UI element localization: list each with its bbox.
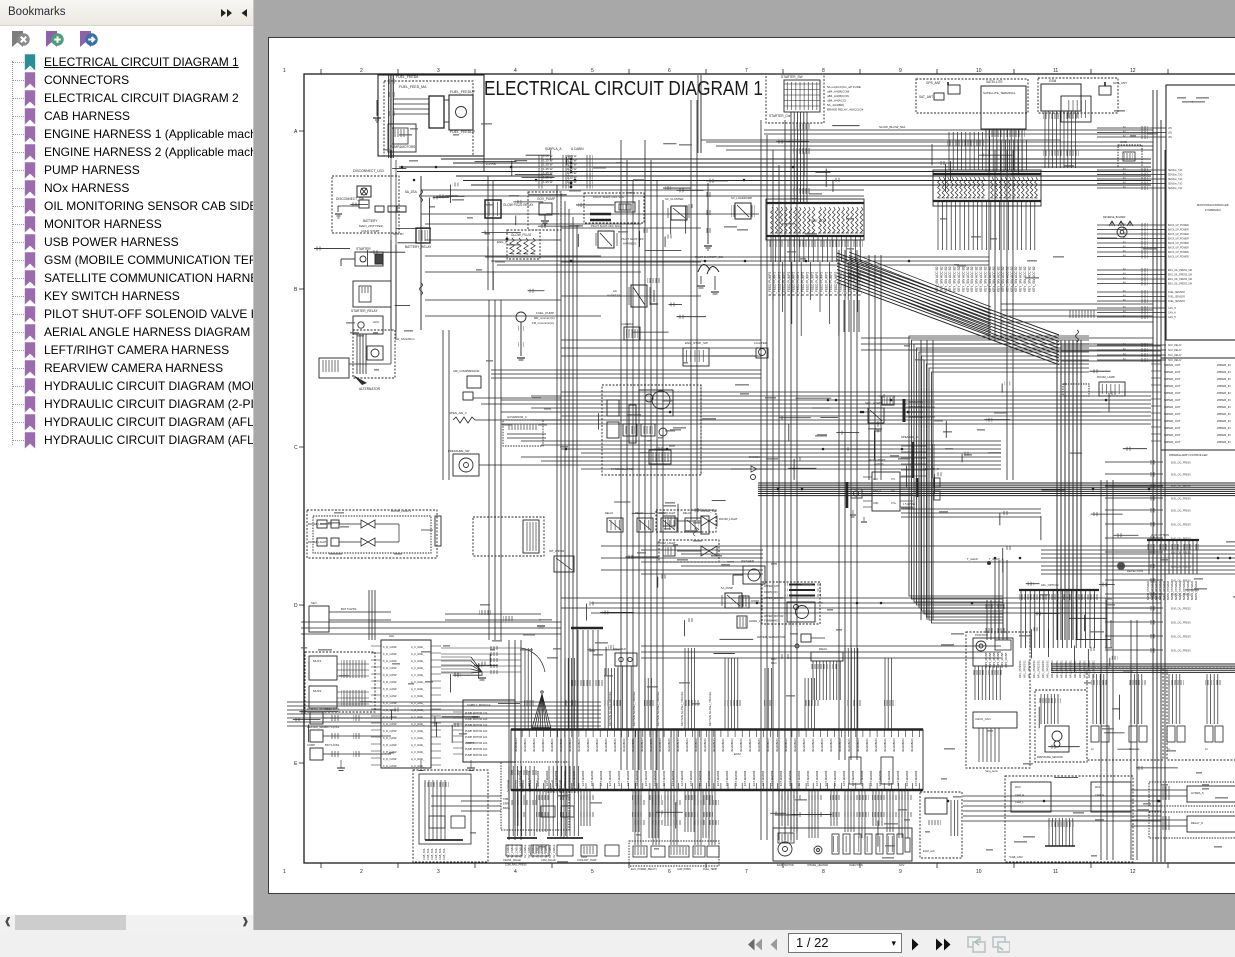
- svg-text:PUMP MOTOR 12A: PUMP MOTOR 12A: [465, 736, 488, 739]
- svg-text:ENG_OIL_PRESS: ENG_OIL_PRESS: [1171, 538, 1191, 541]
- svg-text:FUEL_SENSOR: FUEL_SENSOR: [1168, 301, 1185, 303]
- svg-text:PUMP MOTOR 12A: PUMP MOTOR 12A: [465, 754, 488, 757]
- svg-text:WIPER&LAMP CONTROLLER: WIPER&LAMP CONTROLLER: [1169, 453, 1208, 457]
- svg-text:WIPER_IN: WIPER_IN: [1217, 363, 1231, 367]
- svg-text:BRAKE RELAY_4(ACC)C#: BRAKE RELAY_4(ACC)C#: [827, 108, 863, 112]
- svg-text:EXT-MHBD4: EXT-MHBD4: [608, 770, 612, 786]
- svg-text:BATTERY_RELAY: BATTERY_RELAY: [405, 245, 432, 249]
- svg-text:PILOT SHUT-OFF SOL#: PILOT SHUT-OFF SOL#: [591, 224, 622, 228]
- svg-text:KEY_SW ACC B2: KEY_SW ACC B2: [944, 266, 948, 292]
- svg-text:4: 4: [514, 68, 517, 74]
- svg-text:K_D_CAN#: K_D_CAN#: [383, 645, 397, 649]
- svg-text:ENG_STOP_SW: ENG_STOP_SW: [685, 341, 708, 345]
- svg-text:EXT-MHBD4: EXT-MHBD4: [725, 770, 729, 786]
- svg-text:EXT-MHBD4: EXT-MHBD4: [860, 770, 864, 786]
- svg-text:CH+: CH+: [891, 502, 896, 505]
- svg-text:uB4_A4(ACC): uB4_A4(ACC): [827, 99, 846, 103]
- svg-text:PUMP MOTOR 12A: PUMP MOTOR 12A: [465, 712, 488, 715]
- svg-text:EGR_MOTOR: EGR_MOTOR: [777, 863, 794, 867]
- svg-text:CAN_H: CAN_H: [1168, 312, 1176, 315]
- svg-text:IN-MHBCD: IN-MHBCD: [604, 739, 608, 752]
- svg-text:SOC_RELAY: SOC_RELAY: [1168, 359, 1182, 362]
- svg-text:CAM_ANGLE: CAM_ANGLE: [541, 859, 556, 862]
- svg-text:SUPPLY_MODULE: SUPPLY_MODULE: [467, 703, 491, 707]
- svg-text:IN-MHBCD: IN-MHBCD: [874, 739, 878, 752]
- svg-text:RC1: RC1: [1095, 785, 1101, 789]
- svg-text:AFL_PRESS1: AFL_PRESS1: [1027, 660, 1031, 678]
- svg-text:K_D_CAN#: K_D_CAN#: [383, 722, 397, 726]
- svg-text:ROOM_LIGHT: ROOM_LIGHT: [657, 541, 676, 545]
- svg-text:HARNESS: HARNESS: [607, 294, 621, 298]
- svg-text:IN-MHBCD: IN-MHBCD: [856, 739, 860, 752]
- svg-text:10: 10: [976, 68, 982, 74]
- svg-text:PRESSURE_SW: PRESSURE_SW: [448, 449, 470, 453]
- svg-text:WIPER_OUT: WIPER_OUT: [1164, 391, 1181, 395]
- svg-text:1: 1: [283, 869, 286, 875]
- svg-text:WAHARU6: WAHARU6: [613, 647, 626, 651]
- svg-text:KEYSIG GLP&J_TRAVEL: KEYSIG GLP&J_TRAVEL: [680, 691, 684, 726]
- svg-text:FYNBMN4KC: FYNBMN4KC: [1205, 208, 1221, 212]
- svg-text:EXT-MHBD4: EXT-MHBD4: [779, 770, 783, 786]
- svg-text:12: 12: [1130, 869, 1136, 875]
- svg-text:KEY_SW ACC B2: KEY_SW ACC B2: [970, 266, 974, 292]
- svg-text:IN-MHBCD: IN-MHBCD: [757, 739, 761, 752]
- svg-text:5A_2EA: 5A_2EA: [405, 190, 418, 194]
- svg-text:EXT-MHBD4: EXT-MHBD4: [761, 770, 765, 786]
- svg-text:B_FEED PUMP2: B_FEED PUMP2: [820, 272, 824, 296]
- svg-text:SV_CABLE: SV_CABLE: [552, 844, 556, 858]
- svg-text:BAT 5 AVSS: BAT 5 AVSS: [341, 607, 357, 611]
- svg-text:A_C_RAE_: A_C_RAE_: [411, 764, 425, 768]
- svg-text:DISCONNECT_LED: DISCONNECT_LED: [353, 169, 384, 173]
- svg-text:IN-MHBCD: IN-MHBCD: [649, 739, 653, 752]
- svg-text:IN-MHBCD: IN-MHBCD: [568, 739, 572, 752]
- svg-text:STARTER: STARTER: [356, 247, 371, 251]
- svg-text:IN-MHBCD: IN-MHBCD: [721, 739, 725, 752]
- svg-text:IN-MHBCD: IN-MHBCD: [766, 739, 770, 752]
- svg-text:SOC_RELAY: SOC_RELAY: [1168, 354, 1182, 357]
- svg-text:SAT_ANT: SAT_ANT: [919, 95, 933, 99]
- svg-text:B: B: [294, 287, 298, 293]
- svg-text:KEY_SW ACC B2: KEY_SW ACC B2: [1001, 266, 1005, 292]
- svg-text:SENSnn_TxD: SENSnn_TxD: [1168, 175, 1183, 177]
- svg-text:ENG_OIL_PRESS: ENG_OIL_PRESS: [1171, 524, 1191, 527]
- svg-text:CAB_SOL: CAB_SOL: [442, 847, 446, 860]
- svg-text:K_D_CAN#: K_D_CAN#: [383, 729, 397, 733]
- svg-text:EXT-MHBD4: EXT-MHBD4: [590, 770, 594, 786]
- svg-text:WIPER_OUT: WIPER_OUT: [1164, 384, 1181, 388]
- svg-text:IN-MHBCD: IN-MHBCD: [892, 739, 896, 752]
- svg-text:D: D: [294, 603, 298, 609]
- svg-text:CAB_SOL: CAB_SOL: [426, 847, 430, 860]
- svg-text:AFL_PRESS1: AFL_PRESS1: [1023, 660, 1027, 678]
- svg-text:BACK_UP_POWER: BACK_UP_POWER: [1168, 229, 1189, 232]
- svg-text:8: 8: [822, 68, 825, 74]
- svg-text:AFL_PRESS1: AFL_PRESS1: [1059, 660, 1063, 678]
- svg-text:SOC_RELAY: SOC_RELAY: [1168, 344, 1182, 347]
- svg-text:ENG_OIL_PRESS: ENG_OIL_PRESS: [1171, 474, 1191, 477]
- svg-text:B_FEED PUMP2: B_FEED PUMP2: [806, 272, 810, 296]
- svg-text:ERR: ERR: [503, 802, 509, 806]
- svg-text:MUTE: MUTE: [1120, 141, 1127, 144]
- svg-text:AC: AC: [613, 289, 617, 293]
- svg-text:S-CN IwR: S-CN IwR: [513, 780, 517, 792]
- svg-text:IN-MHBCD: IN-MHBCD: [595, 739, 599, 752]
- svg-text:MUX2: MUX2: [313, 689, 322, 693]
- svg-text:A_C_RAE_: A_C_RAE_: [411, 757, 425, 761]
- svg-text:IN-MHBCD: IN-MHBCD: [739, 739, 743, 752]
- svg-text:GPS_ANT: GPS_ANT: [926, 81, 941, 85]
- svg-text:BAT 5 AVSS: BAT 5 AVSS: [325, 743, 340, 747]
- svg-text:1.25 W: 1.25 W: [543, 180, 553, 184]
- svg-text:IN-MHBCD: IN-MHBCD: [775, 739, 779, 752]
- svg-text:GOVERNOR_C: GOVERNOR_C: [507, 415, 527, 419]
- svg-text:AFL_PRESS1: AFL_PRESS1: [1032, 660, 1036, 678]
- svg-text:A: A: [294, 129, 298, 135]
- svg-text:ROOM_LIGHT: ROOM_LIGHT: [657, 511, 676, 515]
- svg-text:EXT-MHBD4: EXT-MHBD4: [617, 770, 621, 786]
- svg-text:EXT-MHBD4: EXT-MHBD4: [752, 770, 756, 786]
- svg-text:K_D_CAN#: K_D_CAN#: [383, 673, 397, 677]
- svg-text:A_C_RAE_: A_C_RAE_: [411, 659, 425, 663]
- svg-text:B4nn: B4nn: [771, 662, 777, 665]
- svg-text:EXT-MHBD4: EXT-MHBD4: [599, 770, 603, 786]
- svg-text:9: 9: [899, 869, 902, 875]
- svg-text:IN-MHBCD: IN-MHBCD: [901, 739, 905, 752]
- svg-text:CAB_SOL: CAB_SOL: [430, 847, 434, 860]
- svg-text:IN-MHBCD: IN-MHBCD: [883, 739, 887, 752]
- svg-text:uB4_A4(M)COM: uB4_A4(M)COM: [827, 90, 850, 94]
- svg-text:AFL_PRESS1: AFL_PRESS1: [1092, 660, 1096, 678]
- svg-text:MAIN_2P(TYPE2): MAIN_2P(TYPE2): [359, 224, 383, 228]
- svg-text:AFL_PRESS1: AFL_PRESS1: [1046, 660, 1050, 678]
- svg-text:FUEL_FEEDUP: FUEL_FEEDUP: [450, 90, 476, 94]
- svg-text:5A_4A4(BR): 5A_4A4(BR): [827, 103, 844, 107]
- svg-text:RELAY: RELAY: [605, 511, 614, 515]
- svg-text:DEAC: DEAC: [819, 647, 828, 651]
- svg-text:6: 6: [668, 68, 671, 74]
- svg-text:AFL_PRESS1: AFL_PRESS1: [1036, 660, 1040, 678]
- svg-text:K_D_CAN#: K_D_CAN#: [383, 736, 397, 740]
- svg-text:RELAY: RELAY: [683, 511, 692, 515]
- svg-text:SATELLITE_TERMINAL: SATELLITE_TERMINAL: [983, 91, 1016, 95]
- svg-text:EXT-MHBD4: EXT-MHBD4: [878, 770, 882, 786]
- svg-text:A_C_RAE_: A_C_RAE_: [411, 722, 425, 726]
- svg-text:PUMP MOTOR 12A: PUMP MOTOR 12A: [465, 718, 488, 721]
- svg-text:AIR_COMPRESSOR: AIR_COMPRESSOR: [453, 369, 479, 373]
- svg-text:KEY_SW ACC B2: KEY_SW ACC B2: [1032, 266, 1036, 292]
- svg-text:AFL_PRESS1: AFL_PRESS1: [1064, 660, 1068, 678]
- svg-text:K_D_CAN#: K_D_CAN#: [383, 715, 397, 719]
- svg-text:SV_CLUSTER: SV_CLUSTER: [665, 197, 683, 201]
- svg-text:ENG_OIL_PRESS_SW: ENG_OIL_PRESS_SW: [1168, 284, 1193, 286]
- svg-text:ENG_OIL_PRESS_SW: ENG_OIL_PRESS_SW: [1168, 279, 1193, 281]
- svg-text:B_FEED PUMP2: B_FEED PUMP2: [768, 272, 772, 296]
- svg-text:5A un(ACC)Cs_aP FUSE: 5A un(ACC)Cs_aP FUSE: [827, 85, 861, 89]
- svg-text:IN-MHBCD: IN-MHBCD: [667, 739, 671, 752]
- svg-text:CAM_H: CAM_H: [1015, 793, 1024, 797]
- svg-text:B_FEED PUMP2: B_FEED PUMP2: [792, 272, 796, 296]
- svg-text:OPEN_AIR_C: OPEN_AIR_C: [449, 411, 467, 415]
- svg-text:7: 7: [745, 869, 748, 875]
- svg-text:PRESSURE_SENSOR: PRESSURE_SENSOR: [1037, 756, 1063, 759]
- svg-text:C: C: [294, 445, 298, 451]
- svg-text:SENSnn_TxD: SENSnn_TxD: [1168, 184, 1183, 186]
- svg-text:A_C_RAE_: A_C_RAE_: [411, 666, 425, 670]
- svg-text:EXT-MHBD4: EXT-MHBD4: [842, 770, 846, 786]
- svg-text:u5V: u5V: [1168, 133, 1173, 135]
- svg-text:KEY_SW ACC B2: KEY_SW ACC B2: [988, 266, 992, 292]
- svg-text:BACK_UP_POWER: BACK_UP_POWER: [1168, 238, 1189, 241]
- svg-text:GND: GND: [873, 502, 879, 505]
- svg-text:KEY_SW ACC B2: KEY_SW ACC B2: [979, 266, 983, 292]
- svg-text:FUEL_TEMP: FUEL_TEMP: [703, 868, 717, 871]
- svg-text:EXT-MHBD4: EXT-MHBD4: [887, 770, 891, 786]
- svg-text:PUMP&MOTORS: PUMP&MOTORS: [390, 145, 415, 149]
- svg-text:A&I: A&I: [389, 634, 394, 638]
- svg-text:w_SSnnfDnn: w_SSnnfDnn: [397, 337, 415, 341]
- svg-text:IN-MHBCD: IN-MHBCD: [658, 739, 662, 752]
- svg-text:SOC_RELAY: SOC_RELAY: [1168, 349, 1182, 352]
- svg-text:A_C_RAE_: A_C_RAE_: [411, 715, 425, 719]
- svg-text:WIPER_OUT: WIPER_OUT: [1164, 363, 1181, 367]
- svg-text:COMP: COMP: [307, 743, 315, 747]
- svg-text:ROOM_LAMP: ROOM_LAMP: [1097, 375, 1115, 379]
- svg-text:A_C_RAE_: A_C_RAE_: [411, 687, 425, 691]
- svg-text:IN-MHBCD: IN-MHBCD: [703, 739, 707, 752]
- svg-text:ACC: ACC: [373, 320, 380, 324]
- svg-text:BACK_UP_POWER: BACK_UP_POWER: [1168, 224, 1189, 227]
- svg-text:SENSnn_TxD: SENSnn_TxD: [1168, 179, 1183, 181]
- svg-text:u5V: u5V: [1168, 128, 1173, 130]
- svg-text:ENG_OIL_PRESS: ENG_OIL_PRESS: [1171, 510, 1191, 513]
- svg-text:uB4_A4(M)CON: uB4_A4(M)CON: [827, 94, 849, 98]
- svg-text:K_D_CAN#: K_D_CAN#: [383, 687, 397, 691]
- svg-text:S-CN IwR: S-CN IwR: [543, 780, 547, 792]
- svg-text:6: 6: [668, 869, 671, 875]
- svg-text:ENG_#: ENG_#: [497, 240, 507, 244]
- svg-text:B_FEED PUMP2: B_FEED PUMP2: [829, 272, 833, 296]
- svg-text:SCV: SCV: [899, 863, 905, 867]
- svg-text:AFL_PRESS1: AFL_PRESS1: [1018, 660, 1022, 678]
- svg-text:4: 4: [514, 869, 517, 875]
- svg-text:B_FEED PUMP2: B_FEED PUMP2: [824, 272, 828, 296]
- svg-text:IN-MHBCD: IN-MHBCD: [613, 739, 617, 752]
- svg-text:SUBPLA_A: SUBPLA_A: [545, 147, 562, 151]
- svg-text:5: 5: [591, 869, 594, 875]
- svg-text:SATELLITE: SATELLITE: [986, 80, 1003, 84]
- svg-text:1: 1: [283, 68, 286, 74]
- svg-text:AFL_PRESS1: AFL_PRESS1: [1078, 660, 1082, 678]
- svg-text:A_C_RAE_: A_C_RAE_: [411, 708, 425, 712]
- svg-text:12: 12: [1130, 68, 1136, 74]
- svg-text:DOWN_ON: DOWN_ON: [764, 590, 778, 594]
- svg-text:CAB_SOL: CAB_SOL: [422, 847, 426, 860]
- svg-text:EXT-MHBD4: EXT-MHBD4: [851, 770, 855, 786]
- svg-text:HORN_L: HORN_L: [749, 619, 761, 623]
- svg-text:IN-MHBCD: IN-MHBCD: [730, 739, 734, 752]
- svg-text:5A_PUMP: 5A_PUMP: [721, 586, 733, 590]
- svg-text:u5V: u5V: [1168, 137, 1173, 139]
- svg-text:KEY_SW ACC B2: KEY_SW ACC B2: [983, 266, 987, 292]
- svg-text:KEYSIG GLP&J_TRAVEL: KEYSIG GLP&J_TRAVEL: [632, 691, 636, 726]
- svg-text:WIPER_IN: WIPER_IN: [1217, 440, 1231, 444]
- svg-text:IN-MHBCD: IN-MHBCD: [640, 739, 644, 752]
- svg-text:ENG_OIL_PRESS: ENG_OIL_PRESS: [1171, 486, 1191, 489]
- svg-text:IN-MHBCD: IN-MHBCD: [631, 739, 635, 752]
- svg-text:ENG_OIL_PRESS: ENG_OIL_PRESS: [1171, 498, 1191, 501]
- svg-text:ENG_OIL_PRESS: ENG_OIL_PRESS: [1171, 622, 1191, 625]
- svg-text:SPEAKER_R: SPEAKER_R: [901, 435, 918, 439]
- svg-text:K_D_CAN#: K_D_CAN#: [383, 757, 397, 761]
- svg-text:FUEL_FEED_MA: FUEL_FEED_MA: [399, 85, 427, 89]
- svg-text:ENG_OIL_PRESS: ENG_OIL_PRESS: [1171, 580, 1191, 583]
- svg-text:EXT-MHBD4: EXT-MHBD4: [914, 770, 918, 786]
- svg-text:POSITION: POSITION: [975, 633, 988, 637]
- svg-text:BAT 5 AVSS: BAT 5 AVSS: [325, 725, 340, 729]
- svg-text:BATTERY: BATTERY: [363, 219, 378, 223]
- svg-text:AFL_PRESS1: AFL_PRESS1: [1050, 660, 1054, 678]
- svg-text:PUMP MOTOR 12A: PUMP MOTOR 12A: [465, 748, 488, 751]
- svg-text:ENG_OIL_PRESS: ENG_OIL_PRESS: [1171, 552, 1191, 555]
- svg-text:ROOM_LIGHT3: ROOM_LIGHT3: [391, 509, 411, 513]
- svg-text:GOV_PUMP: GOV_PUMP: [537, 197, 555, 201]
- svg-text:ENG_OIL_PRESS: ENG_OIL_PRESS: [1171, 462, 1191, 465]
- svg-text:MR_nnnnnnn(C): MR_nnnnnnn(C): [534, 316, 555, 320]
- svg-text:E: E: [294, 761, 298, 767]
- svg-text:WIPER_IN: WIPER_IN: [1217, 391, 1231, 395]
- svg-text:INJECTION: INJECTION: [849, 863, 863, 867]
- svg-text:MONITOR&CONTROLLER: MONITOR&CONTROLLER: [1197, 203, 1229, 207]
- svg-text:AI: AI: [1205, 747, 1208, 751]
- svg-text:9: 9: [899, 68, 902, 74]
- svg-text:K_D_CAN#: K_D_CAN#: [383, 666, 397, 670]
- svg-text:KEY_SW ACC B2: KEY_SW ACC B2: [1019, 266, 1023, 292]
- svg-text:CAM_H: CAM_H: [1095, 793, 1104, 797]
- svg-text:EXT-MHBD4: EXT-MHBD4: [869, 770, 873, 786]
- svg-text:EXT-MHBD4: EXT-MHBD4: [815, 770, 819, 786]
- svg-text:IN-MHBCD: IN-MHBCD: [910, 739, 914, 752]
- svg-text:ECU_POWER_RELAY1: ECU_POWER_RELAY1: [631, 868, 657, 871]
- svg-text:WASHER: WASHER: [741, 559, 755, 563]
- svg-text:WIPER_OUT: WIPER_OUT: [1164, 412, 1181, 416]
- svg-text:EXT-MHBD4: EXT-MHBD4: [698, 770, 702, 786]
- svg-text:ACC: ACC: [873, 478, 878, 481]
- svg-text:SLOW_BLOW_50A: SLOW_BLOW_50A: [879, 125, 905, 129]
- svg-text:FYNBMHI07: FYNBMHI07: [764, 619, 779, 623]
- svg-text:KEY_SW ACC B2: KEY_SW ACC B2: [1014, 266, 1018, 292]
- svg-text:WIPER_IN: WIPER_IN: [1217, 433, 1231, 437]
- svg-text:AFL_PRESS1: AFL_PRESS1: [1041, 660, 1045, 678]
- svg-text:STARTER_RELAY: STARTER_RELAY: [351, 309, 378, 313]
- svg-text:T_switch_A: T_switch_A: [989, 557, 1004, 561]
- svg-text:INTAKE_HEATER: INTAKE_HEATER: [807, 863, 828, 867]
- svg-text:SV_CABLE: SV_CABLE: [527, 844, 531, 858]
- svg-text:B4nn: B4nn: [771, 658, 777, 661]
- svg-text:BACK_UP_POWER: BACK_UP_POWER: [1168, 233, 1189, 236]
- svg-text:A_C_RAE_: A_C_RAE_: [411, 736, 425, 740]
- svg-text:KEY_SW ACC B2: KEY_SW ACC B2: [953, 266, 957, 292]
- svg-text:IN-MHBCD: IN-MHBCD: [820, 739, 824, 752]
- svg-text:KEY_SW ACC B2: KEY_SW ACC B2: [1005, 266, 1009, 292]
- svg-text:T_switch: T_switch: [967, 557, 978, 561]
- svg-text:K_D_CAN#: K_D_CAN#: [383, 764, 397, 768]
- svg-text:2: 2: [360, 869, 363, 875]
- svg-text:AI: AI: [1091, 747, 1094, 751]
- svg-text:IN-MHBCD: IN-MHBCD: [865, 739, 869, 752]
- svg-text:CAB_SOL: CAB_SOL: [434, 847, 438, 860]
- svg-text:EXT-MHBD4: EXT-MHBD4: [653, 770, 657, 786]
- svg-text:KEY_SW ACC B2: KEY_SW ACC B2: [961, 266, 965, 292]
- svg-text:BACK_UP_POWER: BACK_UP_POWER: [1168, 256, 1189, 259]
- svg-text:IN-MHBCD: IN-MHBCD: [829, 739, 833, 752]
- svg-text:SENSnn_TxD: SENSnn_TxD: [1168, 188, 1183, 190]
- svg-text:IN-MHBCD: IN-MHBCD: [559, 739, 563, 752]
- svg-text:K_D_CAN#: K_D_CAN#: [383, 701, 397, 705]
- svg-text:RELAY_S: RELAY_S: [1191, 821, 1203, 825]
- svg-text:FUEL_FEEDUP: FUEL_FEEDUP: [450, 130, 476, 134]
- svg-text:5: 5: [591, 68, 594, 74]
- svg-text:*CAB_CAM: *CAB_CAM: [1009, 855, 1023, 859]
- svg-text:DOMING_MODULE: DOMING_MODULE: [307, 707, 331, 711]
- svg-text:WIPER_OUT: WIPER_OUT: [1164, 377, 1181, 381]
- svg-text:AFL_PRESS1: AFL_PRESS1: [1055, 660, 1059, 678]
- svg-text:EXT-MHBD4: EXT-MHBD4: [734, 770, 738, 786]
- svg-text:ECM_sub: ECM_sub: [923, 849, 935, 853]
- svg-text:EXT-MHBD4: EXT-MHBD4: [743, 770, 747, 786]
- svg-text:AFL_PRESS1: AFL_PRESS1: [1069, 660, 1073, 678]
- svg-text:60 B BY: 60 B BY: [393, 232, 404, 236]
- svg-text:WIPER_OUT: WIPER_OUT: [1164, 370, 1181, 374]
- svg-text:2: 2: [360, 68, 363, 74]
- svg-text:B_FEED PUMP2: B_FEED PUMP2: [777, 272, 781, 296]
- svg-text:WIPER_IN: WIPER_IN: [1217, 384, 1231, 388]
- svg-text:FUEL_PUMP: FUEL_PUMP: [536, 311, 554, 315]
- svg-text:HARNESS: HARNESS: [623, 242, 637, 246]
- svg-text:WIPER_OUT: WIPER_OUT: [1164, 405, 1181, 409]
- svg-text:KEY_SW ACC B2: KEY_SW ACC B2: [957, 266, 961, 292]
- svg-text:A_C_RAE_: A_C_RAE_: [411, 743, 425, 747]
- svg-text:WIPER_OUT: WIPER_OUT: [1164, 419, 1181, 423]
- svg-text:SV_CABLE: SV_CABLE: [523, 844, 527, 858]
- svg-text:V-ECU_CAN: V-ECU_CAN: [975, 717, 990, 721]
- svg-text:GSM: GSM: [1049, 79, 1057, 83]
- svg-text:ENG_OIL_PRESS: ENG_OIL_PRESS: [1171, 566, 1191, 569]
- svg-text:IN-MHBCD: IN-MHBCD: [784, 739, 788, 752]
- svg-text:B_FEED PUMP2: B_FEED PUMP2: [815, 272, 819, 296]
- svg-text:ENG_OIL_PRESS_SW: ENG_OIL_PRESS_SW: [1168, 270, 1193, 272]
- svg-text:*ang_sens: *ang_sens: [985, 769, 998, 773]
- svg-text:WIPER_IN: WIPER_IN: [1217, 377, 1231, 381]
- svg-text:K_D_CAN#: K_D_CAN#: [383, 652, 397, 656]
- svg-text:REVERSE_BUZZER: REVERSE_BUZZER: [1103, 216, 1126, 219]
- svg-text:A_C_RAE_: A_C_RAE_: [411, 694, 425, 698]
- svg-text:KEY_SW ACC B2: KEY_SW ACC B2: [992, 266, 996, 292]
- svg-text:EXT-MHBD4: EXT-MHBD4: [680, 770, 684, 786]
- svg-text:MUX1: MUX1: [313, 659, 322, 663]
- svg-text:GLW_PWRS: GLW_PWRS: [677, 868, 691, 871]
- svg-text:IN-MHBCD: IN-MHBCD: [523, 739, 527, 752]
- svg-text:10: 10: [976, 869, 982, 875]
- svg-text:KEY_SW ACC B2: KEY_SW ACC B2: [966, 266, 970, 292]
- svg-text:KEY_SW ACC B2: KEY_SW ACC B2: [997, 266, 1001, 292]
- svg-text:IN-MHBCD: IN-MHBCD: [694, 739, 698, 752]
- svg-text:K_D_CAN#: K_D_CAN#: [383, 743, 397, 747]
- svg-text:AFL_PRESS1: AFL_PRESS1: [1087, 660, 1091, 678]
- svg-text:COOLANT_TEMP: COOLANT_TEMP: [577, 859, 597, 862]
- svg-text:IN-MHBCD: IN-MHBCD: [847, 739, 851, 752]
- svg-text:ENG_OIL_PRESS: ENG_OIL_PRESS: [1171, 636, 1191, 639]
